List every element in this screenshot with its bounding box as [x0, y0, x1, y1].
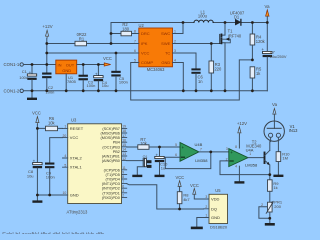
svg-text:VCC: VCC: [175, 175, 184, 180]
svg-text:MJE340: MJE340: [246, 143, 262, 148]
+12V flag above U4A: [237, 121, 247, 148]
svg-text:100u: 100u: [19, 75, 28, 80]
svg-text:RESET: RESET: [70, 126, 84, 131]
svg-text:7: 7: [134, 40, 136, 44]
svg-text:3: 3: [226, 147, 228, 151]
svg-text:Schl bl zapftkl tfhd dbl hkl b: Schl bl zapftkl tfhd dbl hkl blhdt tkb d…: [2, 233, 105, 234]
svg-text:+: +: [230, 150, 233, 155]
transistor T1 IRF740: [220, 23, 242, 91]
svg-text:1M: 1M: [282, 156, 288, 161]
svg-text:1u: 1u: [161, 166, 165, 171]
svg-text:2: 2: [205, 205, 207, 209]
cropped caption text at bottom edge: [2, 233, 105, 239]
svg-text:IPK: IPK: [141, 41, 148, 46]
svg-text:XTAL1: XTAL1: [70, 165, 83, 170]
wire rail y=53 VCC pin6: [47, 52, 132, 54]
svg-text:IN13: IN13: [289, 128, 298, 133]
wire R2 row: [111, 33, 132, 35]
svg-text:10u: 10u: [27, 173, 34, 178]
resistor R4: [250, 23, 266, 60]
svg-text:(T1)PD5: (T1)PD5: [106, 173, 120, 177]
svg-text:6: 6: [122, 184, 124, 188]
svg-text:GND: GND: [70, 193, 79, 198]
wire +12V vertical: [46, 38, 48, 64]
wire TC pin3: [179, 53, 196, 68]
resistor R6: [46, 116, 63, 131]
svg-text:(ICP)PD6: (ICP)PD6: [104, 168, 120, 172]
sensor U5 DS18B20: [204, 188, 228, 230]
wire CON1-1 to U1 IN: [23, 64, 55, 66]
svg-text:10k: 10k: [48, 121, 56, 126]
svg-text:13: 13: [122, 152, 126, 156]
svg-text:3: 3: [205, 195, 207, 199]
svg-text:100n: 100n: [87, 83, 96, 88]
svg-text:2: 2: [122, 194, 124, 198]
VCC flag orange right: [103, 56, 112, 66]
svg-text:GND: GND: [161, 60, 170, 65]
svg-text:VCC: VCC: [190, 183, 199, 188]
capacitor C1: [19, 65, 36, 91]
svg-text:GND: GND: [211, 215, 220, 220]
ground under U4A: [234, 166, 244, 183]
svg-text:16: 16: [122, 138, 126, 142]
svg-text:180: 180: [122, 26, 130, 31]
resistor R10: [273, 151, 290, 177]
wire U1 OUT rail: [77, 64, 105, 66]
svg-text:4: 4: [174, 59, 176, 63]
capacitor C9: [45, 163, 55, 196]
svg-text:(RXD)PD0: (RXD)PD0: [102, 196, 120, 200]
svg-text:15: 15: [122, 143, 126, 147]
svg-text:100n: 100n: [119, 80, 128, 85]
svg-text:8: 8: [122, 175, 124, 179]
svg-text:U5: U5: [215, 188, 221, 193]
op IC U2 MC34063: [132, 23, 179, 72]
wire ground bus: [23, 90, 267, 92]
svg-text:PB2: PB2: [113, 150, 120, 154]
connector CON1-1: [4, 62, 24, 67]
inductor L1: [194, 9, 213, 22]
svg-text:IRF740: IRF740: [228, 33, 242, 38]
svg-text:120k: 120k: [256, 39, 266, 44]
PART2: [31, 21, 299, 229]
svg-text:U4B: U4B: [195, 142, 203, 147]
svg-text:5: 5: [175, 143, 177, 147]
tube V1 IN13: [264, 102, 298, 152]
svg-text:3: 3: [122, 189, 124, 193]
svg-text:(SCK)PB7: (SCK)PB7: [102, 127, 120, 131]
svg-text:10u: 10u: [102, 83, 109, 88]
svg-text:VCC: VCC: [32, 111, 41, 116]
wire U4A feedback: [220, 161, 270, 175]
capacitor C6: [191, 68, 203, 90]
svg-text:LM358: LM358: [195, 158, 208, 163]
capacitor C5: [111, 53, 128, 91]
svg-text:10: 10: [63, 191, 67, 195]
resistor R5: [250, 67, 262, 91]
transistor T2 MJE340: [246, 139, 270, 174]
wire SWC pin1 to top rail: [179, 23, 183, 34]
svg-text:8: 8: [235, 145, 237, 149]
svg-text:2: 2: [174, 40, 176, 44]
svg-text:Va: Va: [265, 4, 271, 9]
wire PD3 DQ line: [127, 184, 204, 209]
capacitor C10: [155, 147, 169, 177]
svg-text:5: 5: [64, 163, 66, 167]
svg-text:(INT1)PD3: (INT1)PD3: [102, 182, 120, 186]
wire COMP pin5 feedback: [131, 60, 253, 100]
+12V power flag: [42, 24, 52, 38]
connector CON1-2: [4, 88, 24, 93]
svg-text:ATtiny2313: ATtiny2313: [67, 209, 89, 214]
wire U1 GND to bus: [65, 74, 67, 91]
svg-text:4: 4: [64, 154, 66, 158]
svg-text:19: 19: [122, 125, 126, 129]
svg-text:(OC1)PB3: (OC1)PB3: [102, 145, 120, 149]
wire vertical x=111: [110, 23, 112, 44]
svg-text:+12V: +12V: [237, 121, 247, 126]
svg-text:3: 3: [174, 49, 176, 53]
svg-text:+12V: +12V: [42, 24, 52, 29]
wire top rail y=22.5: [111, 22, 267, 24]
svg-text:7805: 7805: [67, 79, 77, 84]
svg-text:GND: GND: [62, 68, 71, 73]
svg-text:DRC: DRC: [141, 31, 150, 36]
capacitor C8: [27, 128, 42, 195]
VCC flag above R6: [32, 111, 41, 125]
svg-text:11: 11: [122, 166, 126, 170]
wire pin20 VCC: [50, 138, 63, 163]
svg-text:PB4: PB4: [113, 141, 120, 145]
svg-text:(MOSI)PB5: (MOSI)PB5: [100, 136, 119, 140]
resistor R9: [268, 175, 280, 203]
svg-text:7: 7: [200, 148, 202, 152]
svg-text:1: 1: [64, 125, 66, 129]
ground under C1: [27, 91, 37, 100]
svg-text:6: 6: [175, 153, 177, 157]
svg-text:+: +: [182, 145, 185, 150]
svg-text:14: 14: [122, 148, 126, 152]
svg-text:Va: Va: [272, 102, 278, 107]
svg-text:VDD: VDD: [211, 197, 220, 202]
wire GND pin4: [179, 63, 183, 91]
wire U4B feedback: [165, 152, 211, 169]
svg-text:1n: 1n: [198, 79, 203, 84]
wire VCC to R6 node: [37, 124, 45, 128]
svg-text:DS18B20: DS18B20: [210, 225, 228, 230]
wire rail y=43.5 to R1: [47, 43, 75, 45]
resistor R8: [177, 187, 190, 210]
svg-text:CON1-2: CON1-2: [4, 88, 20, 93]
svg-text:8: 8: [134, 30, 136, 34]
svg-text:COMP: COMP: [141, 60, 153, 65]
crystal Q1: [127, 155, 152, 177]
VCC flag above R8: [175, 175, 184, 192]
Va power flag top: [265, 4, 271, 23]
svg-text:10u/250V: 10u/250V: [270, 54, 287, 59]
wire SWE pin2 to gate node: [179, 43, 220, 45]
capacitor C4: [94, 65, 109, 91]
svg-text:1k: 1k: [273, 185, 277, 190]
svg-text:SWC: SWC: [161, 31, 170, 36]
resistor R1: [75, 32, 87, 46]
capacitor C7: [261, 23, 286, 91]
capacitor C3: [79, 65, 96, 91]
wire PB3 to R7: [127, 146, 138, 148]
svg-text:18: 18: [122, 129, 126, 133]
svg-text:CON1-1: CON1-1: [4, 62, 20, 67]
svg-text:1: 1: [205, 214, 207, 218]
svg-text:(TXD)PD1: (TXD)PD1: [102, 191, 120, 195]
svg-text:XTAL2: XTAL2: [70, 156, 83, 161]
svg-text:(AIN1)PB1: (AIN1)PB1: [102, 155, 120, 159]
svg-text:(INT0)PD2: (INT0)PD2: [102, 187, 120, 191]
ground for U5: [191, 218, 204, 230]
svg-text:9: 9: [122, 171, 124, 175]
svg-text:DQ: DQ: [211, 206, 217, 211]
svg-text:C1: C1: [22, 69, 28, 74]
capacitor C2: [42, 65, 54, 95]
wire gnd rail U3: [37, 194, 62, 196]
wire R1 to pin7: [87, 43, 133, 45]
regulator U1 7805: [56, 60, 77, 84]
ground under C8: [32, 195, 42, 203]
VCC flag for U5: [190, 183, 203, 199]
resistor R7: [138, 137, 149, 149]
svg-text:100n: 100n: [46, 175, 55, 180]
svg-text:(MISO)PB6: (MISO)PB6: [100, 132, 119, 136]
svg-text:R1: R1: [79, 37, 85, 42]
wire U4B out to U4A: [199, 151, 229, 153]
svg-text:VCC: VCC: [141, 51, 150, 56]
svg-text:100u: 100u: [198, 14, 207, 19]
op-amp U4B: [175, 142, 208, 163]
svg-text:20: 20: [63, 134, 67, 138]
svg-text:17: 17: [122, 134, 126, 138]
trimmer PR1: [259, 200, 283, 226]
svg-text:4k7: 4k7: [183, 197, 190, 202]
diode D1 UF4007: [230, 10, 245, 25]
MCU U3 ATtiny2313: [63, 117, 127, 214]
svg-text:U2: U2: [139, 23, 145, 28]
PART1: [4, 53, 268, 214]
svg-text:OUT: OUT: [66, 62, 75, 67]
svg-text:7: 7: [122, 180, 124, 184]
wire R7 to opamp: [149, 146, 180, 148]
resistor R2: [121, 22, 132, 36]
svg-text:LM358: LM358: [245, 162, 258, 167]
svg-text:12: 12: [122, 157, 126, 161]
svg-text:SWE: SWE: [161, 41, 170, 46]
svg-text:(AIN0)PB0: (AIN0)PB0: [102, 159, 120, 163]
svg-text:5: 5: [134, 59, 136, 63]
svg-text:200: 200: [274, 204, 281, 209]
svg-text:1: 1: [174, 30, 176, 34]
svg-text:TC: TC: [165, 51, 170, 56]
svg-text:U3: U3: [71, 117, 77, 122]
svg-text:4: 4: [235, 164, 237, 168]
svg-text:D1: D1: [234, 14, 240, 19]
svg-text:220: 220: [215, 66, 223, 71]
svg-text:MC34063: MC34063: [147, 67, 165, 72]
op-amp U4A: [226, 145, 258, 168]
svg-text:VCC: VCC: [103, 56, 112, 61]
svg-text:(T0)PD4: (T0)PD4: [106, 178, 120, 182]
svg-text:IN: IN: [58, 62, 62, 67]
svg-text:VCC: VCC: [70, 135, 79, 140]
resistor R3: [209, 44, 222, 91]
svg-text:6: 6: [134, 49, 136, 53]
